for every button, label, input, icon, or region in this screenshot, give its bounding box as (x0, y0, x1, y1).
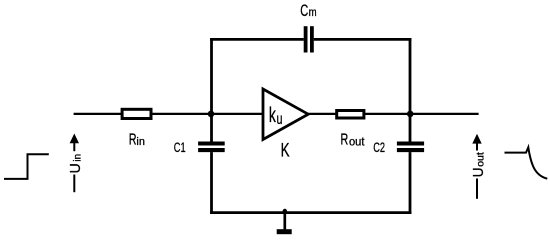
resistor Rout (337, 111, 364, 119)
svg-text:U: U (68, 163, 84, 173)
svg-text:C1: C1 (174, 140, 186, 155)
svg-text:C: C (300, 1, 308, 20)
wire main horizontal (74, 113, 479, 115)
svg-text:C2: C2 (373, 140, 385, 155)
resistor Rin (122, 109, 151, 118)
label C2 (373, 140, 385, 155)
arrow Uin (70, 134, 79, 193)
label C1 (174, 140, 186, 155)
svg-text:in: in (136, 136, 144, 148)
wire bottom rail (210, 211, 411, 214)
svg-text:in: in (73, 154, 84, 162)
svg-text:m: m (309, 6, 317, 19)
label Uin (68, 154, 84, 174)
label K (281, 139, 291, 161)
svg-text:K: K (281, 139, 291, 161)
svg-text:R: R (341, 130, 349, 148)
svg-text:out: out (475, 152, 487, 167)
op-amp U1 triangle (263, 89, 308, 140)
capacitor Cm (306, 26, 312, 52)
wire right rail upper (409, 38, 412, 142)
svg-text:k: k (269, 103, 276, 126)
wire right rail lower (409, 152, 412, 214)
ground (277, 212, 292, 235)
svg-text:out: out (349, 136, 365, 148)
arrow Uout (472, 134, 481, 199)
svg-text:U: U (470, 168, 487, 178)
label Rin (129, 130, 145, 148)
wire top rail right of Cm (314, 38, 412, 41)
output response waveform (505, 147, 548, 178)
label Rout (341, 130, 366, 148)
node B right junction (407, 111, 414, 118)
input step waveform (4, 154, 49, 179)
label ku gain (269, 103, 283, 127)
node A left junction (208, 111, 215, 118)
label Cm (300, 1, 316, 20)
capacitor C2 (397, 144, 424, 151)
capacitor C1 (198, 144, 225, 151)
wire top rail left of Cm (210, 38, 304, 41)
wire left rail lower (210, 152, 213, 214)
label Uout (470, 152, 487, 177)
wire left rail upper (210, 38, 213, 142)
node ground junction (283, 209, 287, 213)
svg-text:u: u (277, 110, 283, 127)
